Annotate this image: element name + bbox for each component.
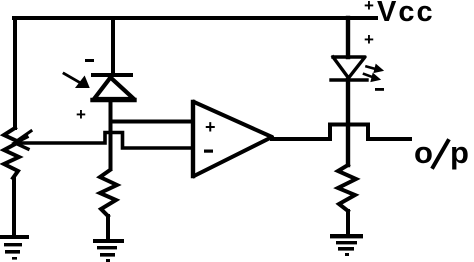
ground middle xyxy=(93,239,124,262)
photodiode D1 xyxy=(93,75,135,100)
label o/p xyxy=(414,135,469,170)
resistor R2 below LED xyxy=(338,165,356,211)
wire LED branch from Vcc rail xyxy=(346,18,350,57)
wire left vertical from Vcc rail to potentiometer xyxy=(13,18,17,128)
LED light arrows xyxy=(364,65,383,82)
wire op-amp output to o/p (hop over LED branch) xyxy=(272,125,410,140)
wire LED cathode down to resistor xyxy=(346,80,350,165)
resistor R1 below photodiode xyxy=(100,170,117,216)
svg-text:+: + xyxy=(76,105,86,124)
label +Vcc xyxy=(364,0,435,28)
wire photodiode anode to op-amp non-inverting input xyxy=(111,120,194,124)
wire photodiode branch from Vcc rail xyxy=(111,18,115,74)
wire resistor R1 to ground xyxy=(106,216,110,240)
label - LED cathode xyxy=(375,88,384,91)
wire top Vcc rail xyxy=(14,16,376,20)
svg-text:+: + xyxy=(205,117,216,137)
LED D2 xyxy=(331,57,367,80)
svg-text:+: + xyxy=(364,0,374,15)
light arrow into photodiode xyxy=(64,74,89,88)
svg-text:+: + xyxy=(364,30,374,49)
svg-text:o: o xyxy=(414,135,433,170)
ground left below potentiometer xyxy=(0,235,29,260)
wire potentiometer to ground xyxy=(12,178,16,237)
wire photodiode anode down to resistor xyxy=(109,99,113,169)
svg-text:p: p xyxy=(450,135,469,170)
wire resistor R2 to ground xyxy=(346,211,350,235)
wire potentiometer wiper to op-amp inverting input (hop over photodiode branch) xyxy=(20,133,193,149)
potentiometer VR1 xyxy=(4,128,31,178)
op-amp U1 xyxy=(193,102,272,176)
label - photodiode cathode xyxy=(85,59,94,62)
ground right xyxy=(330,234,363,256)
svg-text:Vcc: Vcc xyxy=(377,0,435,28)
